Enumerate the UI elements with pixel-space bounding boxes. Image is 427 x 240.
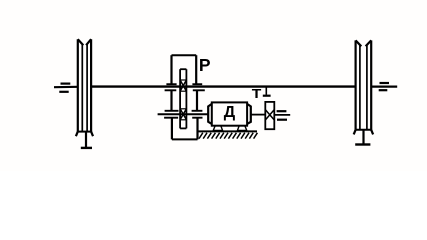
lower gear hub box bottom line <box>180 119 186 121</box>
reducer housing left wall (middle segment) <box>170 91 172 111</box>
pulley right: bottom flare right <box>371 130 373 135</box>
reducer housing top edge <box>172 54 197 56</box>
pulley right: V-groove top slant left <box>356 40 362 46</box>
support base bar under left pulley <box>81 147 92 149</box>
pulley left: outer left rim line <box>77 39 79 131</box>
wire: main upper shaft left segment <box>54 86 78 89</box>
motor right end cap <box>247 104 251 124</box>
pulley left: V-groove top slant right <box>86 39 91 45</box>
break mark right end of shaft (upper dash) <box>380 82 390 84</box>
pulley right: inner groove line right <box>366 45 368 130</box>
gear column right edge <box>185 69 187 128</box>
break mark right end of shaft (lower dash) <box>379 89 388 91</box>
pulley left: bottom rim bar <box>78 131 92 133</box>
brake drum rectangle <box>265 102 274 129</box>
upper gear hub box bottom line <box>180 90 186 92</box>
motor body rectangle <box>212 102 247 125</box>
reducer housing right wall (upper segment) <box>195 55 197 84</box>
motor left foot <box>213 126 222 131</box>
gear column left edge <box>179 69 181 128</box>
wire: main upper shaft right segment <box>371 85 397 87</box>
pulley right: outer right rim line <box>370 40 372 129</box>
wire: lower shaft stub right of brake drum <box>274 114 290 116</box>
pulley right: V-groove top slant right <box>366 40 372 46</box>
bearing bar upper-right above shaft <box>192 83 202 85</box>
motor right foot <box>237 126 246 131</box>
support base bar under right pulley <box>355 143 370 145</box>
pulley left: bottom flare left <box>76 132 78 137</box>
gear column bottom cap <box>180 127 186 129</box>
bearing bar upper-left below shaft <box>165 89 177 91</box>
ground line under motor <box>198 130 257 132</box>
reducer housing left wall (lower segment) <box>171 118 173 139</box>
pulley right: outer left rim line <box>355 40 357 129</box>
wire: lower shaft left stub through reducer to motor <box>158 113 209 115</box>
reducer housing right wall (lower segment) <box>196 118 198 139</box>
break mark left of shaft (upper dash) <box>61 82 71 84</box>
bearing bar lower-right below shaft <box>192 117 202 119</box>
pulley right: inner groove line left <box>359 45 361 130</box>
svg-text:Т: Т <box>252 86 262 100</box>
svg-text:Д: Д <box>224 104 236 121</box>
pulley right: bottom flare left <box>354 130 356 135</box>
pulley left: V-groove top slant left <box>78 39 84 45</box>
upper gear hub cross X <box>180 80 186 91</box>
bearing bar lower-right above shaft <box>192 110 203 112</box>
reducer housing left wall (upper segment) <box>170 55 172 84</box>
reducer housing bottom edge <box>172 138 198 140</box>
break mark right of brake (upper dash) <box>277 110 287 112</box>
support stem under right pulley <box>362 130 364 144</box>
bearing bar upper-right below shaft <box>193 89 205 91</box>
wire: lower shaft motor to brake drum <box>251 114 265 116</box>
gear column top cap <box>180 68 186 70</box>
bearing bar lower-left below shaft <box>164 117 178 119</box>
pulley left: outer right rim line <box>90 39 92 131</box>
reducer housing right wall (middle segment) <box>196 91 198 111</box>
lower gear hub cross X <box>180 109 186 120</box>
ground hatching under motor <box>199 133 257 139</box>
brake drum hub cross X <box>265 110 274 120</box>
break mark left of shaft (lower dash) <box>59 91 68 93</box>
pulley left: inner groove line right <box>86 44 88 132</box>
bearing bar upper-left above shaft <box>166 83 176 85</box>
break mark right of brake (lower dash) <box>277 119 287 121</box>
bearing bar lower-left above shaft <box>165 110 179 112</box>
support stem under left pulley <box>85 132 87 148</box>
lower gear hub box top line <box>180 108 186 110</box>
brake shoe bar <box>263 95 271 97</box>
pulley left: bottom flare right <box>91 132 93 137</box>
svg-text:Р: Р <box>199 55 211 75</box>
brake shoe stem <box>265 87 267 94</box>
pulley right: bottom rim bar <box>356 129 372 131</box>
motor left end cap <box>208 104 212 124</box>
pulley left: inner groove line left <box>81 44 83 132</box>
wire: main upper shaft middle segment (left pulley to right pulley) <box>91 85 356 87</box>
upper gear hub box top line <box>180 79 186 81</box>
